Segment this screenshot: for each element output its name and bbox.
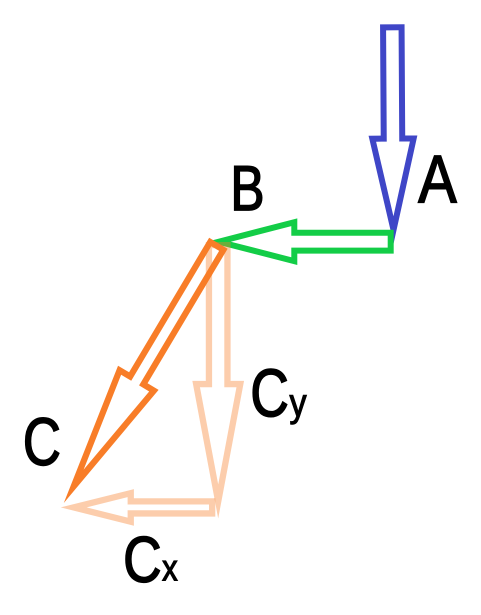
vector A (blue, pointing down) bbox=[369, 24, 418, 243]
label Cx bbox=[126, 537, 160, 583]
label Cy bbox=[253, 369, 287, 417]
vector B (green, pointing left) bbox=[207, 218, 394, 265]
label B bbox=[235, 166, 262, 210]
label A bbox=[418, 156, 456, 203]
vector Cy (translucent orange component, pointing down) bbox=[192, 242, 244, 519]
label C bbox=[26, 418, 59, 466]
vector C (orange resultant, pointing down-left) bbox=[64, 238, 228, 503]
vector Cx (translucent orange component, pointing left) bbox=[61, 489, 216, 526]
